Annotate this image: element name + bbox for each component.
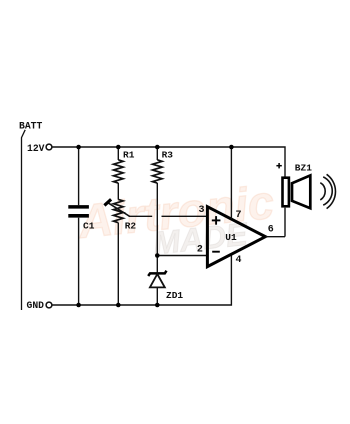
svg-text:ZD1: ZD1 — [166, 290, 183, 301]
svg-text:C1: C1 — [83, 221, 95, 232]
svg-text:12V: 12V — [27, 143, 45, 154]
svg-text:2: 2 — [197, 244, 203, 255]
svg-text:3: 3 — [199, 205, 205, 216]
svg-text:7: 7 — [236, 210, 242, 221]
svg-text:GND: GND — [27, 300, 45, 311]
svg-text:R3: R3 — [162, 149, 174, 160]
svg-text:4: 4 — [236, 255, 242, 266]
svg-text:6: 6 — [268, 225, 274, 236]
svg-text:BATT: BATT — [19, 121, 42, 132]
svg-text:R2: R2 — [125, 221, 137, 232]
svg-text:BZ1: BZ1 — [295, 163, 312, 174]
svg-text:R1: R1 — [123, 149, 135, 160]
svg-text:U1: U1 — [225, 232, 237, 243]
